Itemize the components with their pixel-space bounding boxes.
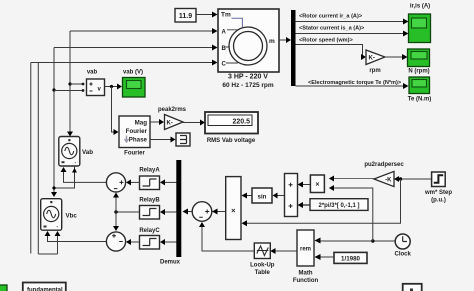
wire gain out to multiplier top xyxy=(329,176,374,182)
svg-text:vab (V): vab (V) xyxy=(123,70,143,76)
bus selector bar xyxy=(291,10,296,86)
wire sum1 out to Vab input xyxy=(61,167,107,182)
wire constant to sum4 xyxy=(298,202,311,208)
wire fourier phase to terminator xyxy=(150,137,176,143)
svg-text:Phase: Phase xyxy=(129,137,148,144)
svg-text:<Electromagnetic torque Te (N*: <Electromagnetic torque Te (N*m)> xyxy=(308,80,402,86)
SECTION-LEFT xyxy=(31,31,258,254)
product block tall xyxy=(226,177,241,240)
svg-text:ir,is (A): ir,is (A) xyxy=(410,4,430,10)
svg-text:pu2radpersec: pu2radpersec xyxy=(364,162,404,168)
svg-text:vab: vab xyxy=(87,70,98,76)
svg-text:peak2rms: peak2rms xyxy=(158,107,187,113)
svg-text:sin: sin xyxy=(258,194,267,201)
svg-text:<Stator current is_a (A)>: <Stator current is_a (A)> xyxy=(299,26,365,32)
wire vab tap down to fourier xyxy=(112,87,119,136)
gain pu2radpersec xyxy=(364,162,404,187)
display RMS Vab voltage 220.5 xyxy=(205,112,258,144)
sum block S4 xyxy=(285,174,298,217)
wire U return to Vbc bottom-right xyxy=(38,231,60,254)
svg-text:Look-Up: Look-Up xyxy=(250,263,275,269)
SECTION-RIGHT xyxy=(242,162,453,258)
wire junction up to sum1 xyxy=(113,193,119,213)
svg-text:-K: -K xyxy=(385,178,392,184)
relay RelayA xyxy=(139,168,160,190)
SECTION-MIDDLE xyxy=(106,160,368,284)
svg-text:A: A xyxy=(222,30,227,36)
wire rem to lut xyxy=(270,248,297,254)
svg-text:B: B xyxy=(222,46,227,52)
multiplier block small xyxy=(310,175,324,193)
wire clock branch to rem xyxy=(315,238,373,244)
svg-text:fundamental: fundamental xyxy=(27,288,63,291)
lookup table block xyxy=(250,243,275,276)
wire peak2rms to display xyxy=(183,120,205,126)
wire vab to scope xyxy=(105,84,123,90)
wire motor m to bus selector xyxy=(279,37,291,43)
svg-text:rem: rem xyxy=(300,247,311,253)
svg-text:C: C xyxy=(222,62,227,68)
wire sum4 to sin xyxy=(273,193,285,199)
wire demux to RelayC xyxy=(160,239,177,245)
svg-text:60 Hz - 1725 rpm: 60 Hz - 1725 rpm xyxy=(222,82,274,89)
step block wm* xyxy=(424,172,452,204)
svg-text:Te (N.m): Te (N.m) xyxy=(408,97,432,103)
wire multiplier to sum4 xyxy=(298,182,311,188)
wire rotor current xyxy=(296,19,409,25)
constant Tm 11.9 xyxy=(175,9,196,23)
svg-text:Math: Math xyxy=(299,271,313,277)
scope ir,is (A) xyxy=(409,4,431,43)
svg-text:RelayC: RelayC xyxy=(139,228,160,234)
wire RelayB out to junction xyxy=(114,210,139,213)
voltage measurement vab xyxy=(82,70,105,96)
svg-text:K-: K- xyxy=(167,121,173,127)
terminator phase block xyxy=(176,133,190,146)
wire Tm constant to motor xyxy=(196,12,218,18)
wire RelayA out to sum1 xyxy=(126,179,140,185)
wire left outer vertical xyxy=(30,63,32,254)
SECTION-BOTTOM xyxy=(0,283,422,291)
demux bar xyxy=(160,160,181,266)
wire rotor speed to gain xyxy=(296,45,367,61)
wire stator current xyxy=(296,31,409,37)
wire demux to RelayB xyxy=(160,209,177,215)
sum junction S1 xyxy=(106,173,125,192)
wire phase B vertical xyxy=(51,48,57,198)
svg-text:×: × xyxy=(231,206,236,215)
wire product out to sum3 xyxy=(212,209,226,215)
svg-text:Clock: Clock xyxy=(395,252,412,258)
svg-text:2*pi/3*[ 0,-1,1 ]: 2*pi/3*[ 0,-1,1 ] xyxy=(318,203,359,209)
gain rpm xyxy=(366,50,385,74)
asynchronous machine motor block xyxy=(218,9,279,72)
wire fourier mag to peak2rms xyxy=(150,119,164,125)
wire gain rpm to scope N xyxy=(385,54,408,60)
wire clock out with junction xyxy=(371,239,395,242)
svg-text:Demux: Demux xyxy=(160,260,181,266)
constant 1-1980 xyxy=(334,252,367,263)
scope Te (N.m) xyxy=(408,77,432,103)
constant 2pi3 xyxy=(310,199,368,211)
node junction phase B tap xyxy=(52,88,82,91)
scope N (rpm) xyxy=(408,49,430,75)
svg-text:Vbc: Vbc xyxy=(66,213,78,220)
svg-text:Table: Table xyxy=(255,270,271,276)
svg-text:11.9: 11.9 xyxy=(179,13,192,20)
block cut bottom-left xyxy=(23,283,66,291)
wire demux to RelayA xyxy=(160,179,177,185)
svg-text:RMS Vab voltage: RMS Vab voltage xyxy=(207,138,256,144)
svg-text:×: × xyxy=(315,182,319,189)
SECTION-TOP xyxy=(31,4,431,103)
svg-text:rpm: rpm xyxy=(369,68,380,74)
ac source Vbc xyxy=(41,199,78,231)
node junction phase A tap xyxy=(68,82,82,85)
svg-text:Function: Function xyxy=(293,278,319,284)
wire phase C horizontal xyxy=(31,60,218,66)
relay RelayB xyxy=(139,198,160,220)
motor label xyxy=(222,74,274,90)
svg-text:Fourier: Fourier xyxy=(126,128,148,135)
svg-text:3 HP - 220 V: 3 HP - 220 V xyxy=(228,74,268,81)
svg-text:Vab: Vab xyxy=(82,149,93,156)
svg-text:(p.u.): (p.u.) xyxy=(431,198,446,204)
math function rem block xyxy=(293,230,319,284)
svg-text:K-: K- xyxy=(369,56,375,62)
fourier block xyxy=(119,116,150,157)
svg-text:<Rotor current ir_a (A)>: <Rotor current ir_a (A)> xyxy=(299,14,363,20)
wire RelayC out to sum2 xyxy=(126,239,140,245)
svg-text:Tm: Tm xyxy=(221,12,231,19)
wire clock branch up to multiplier bottom xyxy=(329,185,373,241)
svg-text:RelayA: RelayA xyxy=(139,168,160,174)
wire Vab bottom-right to phase B xyxy=(52,167,77,190)
gain peak2rms xyxy=(158,107,187,130)
wire phase C vertical xyxy=(37,63,39,255)
wire sum2 out to Vbc input xyxy=(45,231,107,242)
svg-text:<Rotor speed (wm)>: <Rotor speed (wm)> xyxy=(299,38,354,44)
sum junction S2 xyxy=(106,232,125,251)
svg-text:1/1980: 1/1980 xyxy=(341,256,360,263)
wire torque to scope Te xyxy=(296,83,409,89)
ac source Vab xyxy=(59,137,93,167)
wire sin to product xyxy=(242,193,253,199)
wire lut out to sum3 bottom xyxy=(199,222,254,251)
svg-text:N (rpm): N (rpm) xyxy=(408,69,429,75)
wire sum3 out to demux xyxy=(183,209,193,215)
wire constant 1-1980 to rem xyxy=(315,254,335,260)
sin block xyxy=(252,188,272,203)
relay RelayC xyxy=(139,228,160,249)
scope corner cut green xyxy=(0,285,7,291)
block cut bottom-right xyxy=(403,284,422,291)
svg-text:wm* Step: wm* Step xyxy=(424,190,452,196)
wire step branch down to product xyxy=(242,179,401,226)
svg-text:m: m xyxy=(269,38,275,45)
svg-text:Mag: Mag xyxy=(135,120,148,127)
sum junction S3 xyxy=(192,202,212,222)
svg-text:RelayB: RelayB xyxy=(139,198,160,204)
wire phase A vertical xyxy=(67,31,73,137)
clock block xyxy=(395,234,412,258)
wire phase A horizontal xyxy=(70,28,218,34)
scope vab (V) xyxy=(123,70,146,98)
wire phase B horizontal xyxy=(54,45,218,51)
svg-text:Fourier: Fourier xyxy=(124,151,145,157)
svg-text:220.5: 220.5 xyxy=(232,119,250,126)
wire junction down to sum2 xyxy=(113,212,119,231)
wire step to gain with branch xyxy=(394,176,432,182)
